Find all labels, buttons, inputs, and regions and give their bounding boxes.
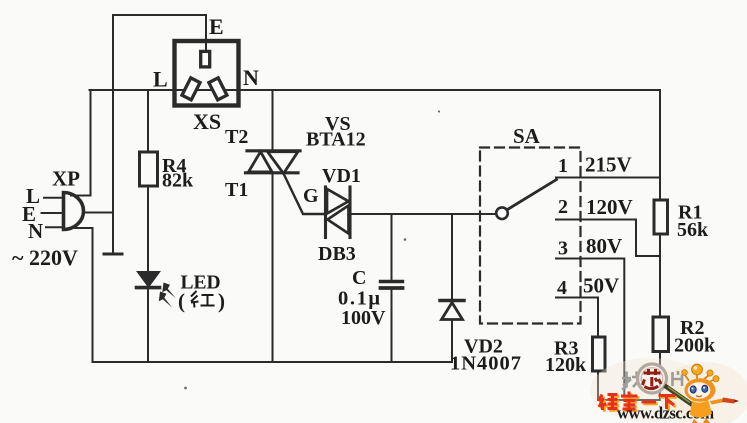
watermark red text wei ku yi xia bbox=[599, 392, 676, 411]
triac VS bbox=[246, 151, 301, 174]
LED diode symbol bbox=[137, 273, 160, 288]
wire gate G bbox=[284, 175, 326, 215]
mascot mouth bbox=[696, 396, 702, 397]
watermark magnifier handle bbox=[665, 386, 695, 407]
svg-text:2: 2 bbox=[558, 196, 568, 218]
mascot right arm and pen bbox=[710, 399, 725, 405]
mascot eyes bbox=[690, 386, 696, 393]
watermark paper tint bbox=[590, 358, 710, 422]
svg-text:3: 3 bbox=[558, 238, 568, 260]
svg-text:200k: 200k bbox=[674, 335, 716, 357]
wire position 2 to 120V node bbox=[556, 220, 660, 257]
wire R4 to LED bbox=[147, 186, 149, 270]
svg-text:1N4007: 1N4007 bbox=[450, 353, 522, 375]
wire R3 to output rail bbox=[597, 371, 599, 400]
wire diac to SA pole bbox=[350, 213, 497, 215]
watermark bbox=[590, 358, 747, 423]
svg-text:VD1: VD1 bbox=[322, 165, 361, 187]
wire E vertical riser bbox=[112, 15, 114, 253]
svg-text:56k: 56k bbox=[677, 219, 709, 241]
scan speck bbox=[404, 238, 407, 241]
capacitor C plates bbox=[381, 280, 403, 283]
socket XS slot N bbox=[209, 78, 227, 100]
svg-text:T2: T2 bbox=[225, 126, 248, 148]
wire VD2 branch top bbox=[451, 214, 453, 299]
svg-text:120V: 120V bbox=[586, 195, 633, 219]
mascot antenna balls bbox=[692, 364, 703, 375]
socket XS box bbox=[175, 41, 239, 106]
glyph hong (red) bbox=[191, 291, 215, 308]
wire L from XP up to top rail bbox=[71, 90, 91, 196]
svg-text:50V: 50V bbox=[583, 274, 619, 298]
wire R1 to R2 bbox=[659, 234, 661, 317]
ground (earth stub bar) bbox=[104, 253, 122, 256]
wire right column rail to R1 bbox=[659, 90, 661, 200]
svg-text:E: E bbox=[209, 14, 224, 39]
diode VD2 bbox=[440, 301, 464, 320]
mascot head bbox=[685, 378, 716, 402]
watermark mascot bbox=[682, 364, 739, 423]
watermark red xin glyph in lens bbox=[643, 369, 662, 389]
mascot body bbox=[690, 400, 712, 418]
watermark gray glyph zhao bbox=[622, 372, 642, 390]
socket XS slot E bbox=[201, 51, 210, 67]
plug XP pin N lead bbox=[46, 226, 64, 228]
wire E from XP to riser bbox=[83, 212, 113, 214]
diac VD1 bbox=[326, 187, 351, 238]
scan speck bbox=[184, 387, 187, 390]
wire LED to bottom rail bbox=[147, 288, 149, 362]
wire top rail L bbox=[90, 89, 661, 91]
switch SA arm to position 1 bbox=[507, 180, 557, 210]
wire N from XP down to bottom rail bbox=[75, 228, 93, 362]
wire C to bottom rail bbox=[391, 290, 393, 363]
wire bottom rail N bbox=[93, 361, 453, 363]
mascot antenna stalks bbox=[685, 373, 714, 383]
mascot legs bbox=[692, 419, 698, 423]
svg-text:XP: XP bbox=[52, 167, 80, 191]
svg-text:(: ( bbox=[178, 289, 185, 313]
svg-text:~ 220V: ~ 220V bbox=[12, 245, 78, 270]
wire T1 to bottom rail bbox=[272, 173, 274, 362]
plug XP body bbox=[64, 193, 84, 230]
wire R2 to output rail bbox=[659, 352, 661, 401]
wire position 1 to 215V node bbox=[556, 177, 660, 179]
wire VD2 to bottom rail bbox=[451, 320, 453, 363]
svg-text:120k: 120k bbox=[545, 354, 587, 376]
switch SA dashed enclosure bbox=[480, 148, 581, 324]
resistor R2 bbox=[653, 317, 669, 352]
LED emission arrows bbox=[159, 283, 176, 308]
svg-text:LED: LED bbox=[181, 273, 221, 294]
wire C branch top bbox=[391, 214, 393, 280]
wire bottom right output rail bbox=[598, 399, 660, 401]
plug XP pin E lead bbox=[42, 212, 64, 214]
resistor R4 bbox=[140, 152, 158, 186]
svg-text:T1: T1 bbox=[225, 179, 248, 201]
svg-text:100V: 100V bbox=[341, 307, 386, 329]
plug XP pin L lead bbox=[44, 197, 64, 199]
switch SA pole contact bbox=[496, 207, 508, 219]
watermark red text wei ku yi xia (shadow) bbox=[600, 393, 677, 412]
svg-text:N: N bbox=[243, 65, 259, 90]
svg-text:215V: 215V bbox=[585, 153, 632, 177]
svg-text:C: C bbox=[352, 267, 366, 289]
svg-text:80V: 80V bbox=[586, 234, 622, 258]
wire E top link (XP earth riser to socket E pin) bbox=[113, 15, 206, 52]
scan speck bbox=[438, 110, 440, 112]
svg-text:L: L bbox=[153, 67, 168, 92]
svg-text:DB3: DB3 bbox=[318, 243, 356, 265]
watermark gray glyph pian bbox=[673, 371, 683, 386]
svg-text:BTA12: BTA12 bbox=[306, 129, 366, 151]
svg-text:): ) bbox=[218, 289, 225, 313]
wire triac branch from rail (T2) bbox=[272, 90, 274, 150]
socket XS slot L bbox=[182, 78, 200, 100]
svg-text:82k: 82k bbox=[162, 170, 194, 192]
resistor R1 bbox=[654, 200, 668, 234]
svg-text:4: 4 bbox=[557, 277, 567, 299]
svg-text:XS: XS bbox=[193, 109, 221, 134]
svg-text:SA: SA bbox=[513, 124, 541, 148]
svg-text:N: N bbox=[28, 219, 43, 243]
wire position 3 (80V) down to output rail bbox=[556, 259, 624, 401]
svg-text:G: G bbox=[303, 185, 319, 207]
resistor R3 bbox=[593, 337, 606, 371]
wire R4 branch from rail bbox=[147, 90, 149, 152]
watermark magnifier ring bbox=[638, 364, 667, 393]
svg-text:1: 1 bbox=[558, 155, 568, 177]
wire position 4 (50V) to R3 bbox=[556, 298, 598, 338]
